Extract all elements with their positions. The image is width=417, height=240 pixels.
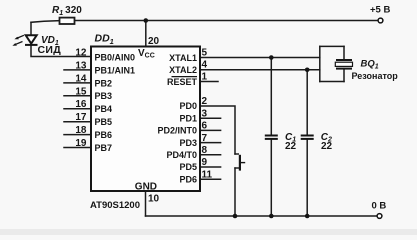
svg-text:14: 14 bbox=[75, 73, 87, 84]
svg-text:+5 В: +5 В bbox=[370, 4, 390, 15]
wire crystal loop top bbox=[320, 45, 344, 47]
crystal BQ1 body bbox=[335, 62, 352, 66]
svg-text:PD3: PD3 bbox=[179, 138, 197, 148]
node junction C2/0V rail bbox=[305, 214, 310, 219]
svg-text:PB3: PB3 bbox=[95, 91, 113, 101]
wire PD5 stub (pin 9) bbox=[200, 166, 221, 168]
wire C1 bottom lead bbox=[270, 140, 272, 216]
svg-text:PD4/T0: PD4/T0 bbox=[166, 150, 197, 160]
svg-text:10: 10 bbox=[148, 194, 160, 205]
svg-text:4: 4 bbox=[202, 60, 208, 71]
svg-text:Резонатор: Резонатор bbox=[352, 71, 399, 81]
svg-text:PB0/AIN0: PB0/AIN0 bbox=[95, 53, 136, 63]
svg-text:RESET: RESET bbox=[167, 77, 198, 87]
svg-text:19: 19 bbox=[75, 138, 87, 149]
wire crystal loop top-right drop bbox=[343, 46, 345, 59]
wire PD4 stub (pin 8) bbox=[200, 154, 221, 156]
capacitor C2 plates bbox=[301, 135, 314, 137]
wire PB4 stub (pin 16) bbox=[64, 108, 91, 110]
svg-text:GND: GND bbox=[135, 182, 157, 193]
svg-text:17: 17 bbox=[75, 112, 87, 123]
wire PB6 stub (pin 18) bbox=[64, 134, 91, 136]
wire button to 0V rail bbox=[234, 168, 236, 216]
svg-text:3: 3 bbox=[202, 108, 208, 119]
svg-text:PB1/AIN1: PB1/AIN1 bbox=[95, 65, 136, 75]
svg-text:PD1: PD1 bbox=[179, 113, 197, 123]
crystal BQ1 bottom plate bbox=[336, 68, 352, 70]
wire PB3 stub (pin 15) bbox=[64, 95, 91, 97]
svg-text:PB2: PB2 bbox=[95, 78, 113, 88]
wire top rail left (LED to R1) bbox=[31, 21, 60, 23]
svg-text:20: 20 bbox=[148, 36, 160, 47]
LED arrow 2 bbox=[12, 42, 22, 46]
wire C2 top lead bbox=[306, 70, 308, 135]
node junction pin20/top rail bbox=[144, 18, 149, 23]
wire C1 top lead bbox=[270, 58, 272, 135]
node junction C1/XTAL1 bbox=[269, 55, 274, 60]
svg-text:22: 22 bbox=[321, 141, 333, 152]
svg-text:8: 8 bbox=[202, 145, 208, 156]
wire top rail (R1 to +5V terminal) bbox=[75, 20, 379, 22]
svg-text:PD5: PD5 bbox=[179, 162, 197, 172]
svg-text:PD0: PD0 bbox=[179, 101, 197, 111]
switch SB button bar bbox=[239, 155, 241, 171]
capacitor C1 plates bbox=[265, 135, 278, 137]
svg-text:2: 2 bbox=[202, 96, 208, 107]
svg-text:16: 16 bbox=[75, 99, 87, 110]
svg-text:PB4: PB4 bbox=[95, 104, 113, 114]
wire crystal loop bottom bbox=[320, 81, 344, 83]
svg-text:12: 12 bbox=[75, 48, 87, 59]
wire crystal loop left vertical bbox=[319, 46, 321, 81]
LED VD1 triangle bbox=[26, 35, 37, 43]
svg-text:7: 7 bbox=[202, 133, 208, 144]
svg-text:PD6: PD6 bbox=[179, 174, 197, 184]
wire C2 bottom lead bbox=[306, 140, 308, 216]
wire PD3 stub (pin 7) bbox=[200, 142, 221, 144]
svg-text:15: 15 bbox=[75, 86, 87, 97]
node junction C2/XTAL2 bbox=[305, 68, 310, 73]
svg-text:18: 18 bbox=[75, 125, 87, 136]
wire XTAL1 (pin 5) bbox=[200, 57, 320, 59]
svg-text:СИД: СИД bbox=[38, 44, 62, 56]
svg-text:PB5: PB5 bbox=[95, 117, 113, 127]
LED VD1 cathode bar bbox=[25, 44, 38, 46]
wire PD1 stub (pin 3) bbox=[200, 117, 221, 119]
svg-text:AT90S1200: AT90S1200 bbox=[90, 200, 140, 211]
terminal 0V bbox=[377, 214, 382, 219]
svg-text:0 В: 0 В bbox=[372, 201, 387, 212]
LED arrow 1 bbox=[14, 35, 24, 39]
wire RESET stub (pin 1) bbox=[200, 81, 218, 83]
svg-text:6: 6 bbox=[202, 121, 208, 132]
svg-text:22: 22 bbox=[285, 141, 297, 152]
RESET overline bbox=[172, 76, 198, 78]
wire PB5 stub (pin 17) bbox=[64, 121, 91, 123]
wire PB2 stub (pin 14) bbox=[64, 82, 91, 84]
wire LED cathode to pin 12 bbox=[31, 45, 91, 57]
resistor R1 bbox=[60, 18, 75, 24]
op IC DD1 box AT90S1200 bbox=[91, 47, 200, 192]
svg-text:13: 13 bbox=[75, 60, 87, 71]
node junction button/0V rail bbox=[233, 214, 238, 219]
wire crystal loop bottom-right rise bbox=[343, 69, 345, 82]
svg-text:9: 9 bbox=[202, 157, 208, 168]
node junction C1/0V rail bbox=[269, 214, 274, 219]
wire bottom 0V rail bbox=[146, 215, 378, 217]
wire PD6 stub (pin 11) bbox=[200, 178, 221, 180]
switch SB button actuator bbox=[241, 162, 245, 164]
svg-text:1: 1 bbox=[202, 72, 208, 83]
svg-text:R1320: R1320 bbox=[52, 5, 82, 17]
svg-text:PB6: PB6 bbox=[95, 130, 113, 140]
terminal +5V bbox=[378, 18, 383, 23]
wire PB7 stub (pin 19) bbox=[64, 147, 91, 149]
svg-text:11: 11 bbox=[202, 169, 213, 180]
wire XTAL2 (pin 4) bbox=[200, 69, 320, 71]
svg-text:XTAL1: XTAL1 bbox=[169, 53, 197, 63]
svg-text:XTAL2: XTAL2 bbox=[169, 65, 197, 75]
switch SB button contacts bbox=[234, 154, 245, 171]
svg-text:PD2/INT0: PD2/INT0 bbox=[157, 126, 197, 136]
wire Vcc pin 20 drop bbox=[145, 21, 147, 47]
wire PD2 stub (pin 6) bbox=[200, 129, 221, 131]
wire GND pin 10 drop bbox=[145, 191, 147, 216]
wire PB1 stub (pin 13) bbox=[64, 69, 91, 71]
wire LED anode drop bbox=[30, 22, 32, 35]
svg-text:5: 5 bbox=[202, 48, 208, 59]
wire PD0 (pin 2) to button bbox=[200, 106, 235, 154]
crystal BQ1 top plate bbox=[336, 59, 352, 61]
svg-text:PB7: PB7 bbox=[95, 143, 113, 153]
